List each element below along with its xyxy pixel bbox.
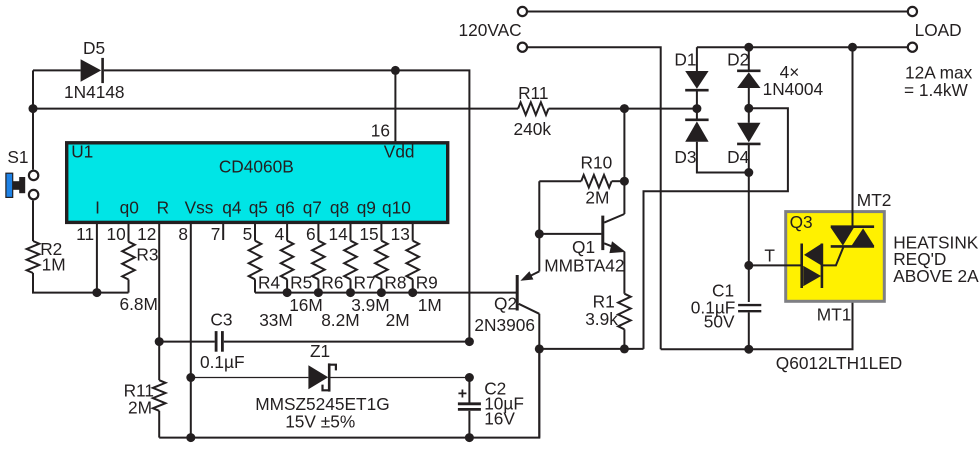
wire 120VAC hot down to lower rail [527, 47, 661, 349]
junction R8 bus [377, 288, 386, 297]
svg-text:2M: 2M [386, 310, 410, 330]
svg-text:R3: R3 [136, 244, 158, 264]
wire pin 10 + resistor R3 [128, 222, 130, 242]
junction MT2 load line [848, 43, 857, 52]
resistor R10 [539, 180, 581, 182]
svg-text:240k: 240k [514, 119, 552, 139]
wire q-bus to Q2 base [255, 292, 517, 294]
svg-text:S1: S1 [7, 147, 28, 167]
junction Q1 base tap [535, 229, 544, 238]
wire D3 anode to D4 node [697, 142, 749, 173]
terminal 120VAC bottom [518, 43, 527, 52]
wire Q1 base [539, 233, 601, 235]
svg-text:MMBTA42: MMBTA42 [544, 255, 624, 275]
junction R10 Q1 collector [620, 177, 629, 186]
svg-text:2N3906: 2N3906 [474, 315, 535, 335]
svg-text:R8: R8 [384, 273, 406, 293]
svg-text:q10: q10 [382, 197, 411, 217]
wire Q2 emitter column [538, 181, 540, 271]
svg-text:Q6012LTH1LED: Q6012LTH1LED [776, 353, 902, 373]
svg-text:C3: C3 [210, 309, 232, 329]
junction C1 rail [744, 345, 753, 354]
svg-text:Q1: Q1 [572, 237, 595, 257]
svg-text:12: 12 [137, 224, 156, 244]
resistor R8 [375, 222, 406, 293]
junction S1 node [29, 104, 38, 113]
svg-text:1M: 1M [418, 295, 442, 315]
svg-text:15: 15 [359, 224, 378, 244]
resistor R6 [312, 222, 343, 293]
svg-text:R: R [157, 197, 169, 217]
svg-text:33M: 33M [259, 310, 293, 330]
zener Z1 [308, 365, 328, 389]
junction Vss Z1 [186, 373, 195, 382]
svg-text:+: + [458, 385, 467, 402]
svg-text:LOAD: LOAD [915, 20, 962, 40]
resistor R11 2M [158, 342, 160, 381]
svg-text:16M: 16M [289, 295, 323, 315]
junction R11 bridge D1-D3 [692, 104, 701, 113]
svg-text:10: 10 [106, 224, 125, 244]
resistor R11 240k [518, 102, 548, 115]
svg-text:4: 4 [275, 224, 285, 244]
diode D2 [737, 70, 760, 73]
svg-text:ABOVE 2A: ABOVE 2A [893, 266, 979, 286]
capacitor C3 [159, 341, 215, 343]
svg-text:q7: q7 [303, 197, 322, 217]
wire left column top [32, 70, 34, 169]
svg-text:16V: 16V [484, 408, 515, 428]
junction R1 rail [620, 344, 629, 353]
wire bridge top to LOAD bottom [697, 46, 908, 48]
svg-text:50V: 50V [704, 311, 735, 331]
wire S1 node to R11 240k [33, 108, 518, 110]
svg-text:5: 5 [243, 224, 253, 244]
transistor Q1 MMBTA42 [603, 214, 626, 253]
terminal 120VAC top [518, 7, 527, 16]
junction D2 D4 [744, 104, 753, 113]
switch S1 [6, 173, 13, 197]
svg-text:8.2M: 8.2M [321, 310, 359, 330]
svg-text:14: 14 [328, 224, 348, 244]
svg-text:15V ±5%: 15V ±5% [285, 411, 355, 431]
wire Q1 collector up to R11 node [623, 109, 625, 214]
svg-text:= 1.4kW: = 1.4kW [904, 80, 969, 100]
wire pin 8 (Vss) down to bottom rail [190, 222, 192, 438]
wire Q2 collector down [538, 314, 540, 438]
svg-text:q5: q5 [249, 197, 268, 217]
svg-text:D5: D5 [83, 38, 105, 58]
wire pin16 Vdd [394, 70, 396, 142]
capacitor C1 [738, 304, 761, 306]
resistor R5 [281, 222, 312, 293]
svg-text:R7: R7 [354, 273, 376, 293]
diac trigger inside Q3 [802, 243, 822, 288]
junction gate node [744, 261, 753, 270]
svg-text:R4: R4 [258, 273, 280, 293]
wire bottom Vss rail [159, 349, 539, 438]
svg-text:D4: D4 [727, 147, 749, 167]
wire emitter rail [539, 348, 643, 350]
svg-text:R11: R11 [518, 83, 548, 103]
svg-text:I: I [95, 197, 100, 217]
svg-text:R9: R9 [416, 273, 438, 293]
svg-text:q8: q8 [330, 197, 349, 217]
wire R11 to bridge node [549, 108, 697, 110]
svg-text:CD4060B: CD4060B [219, 157, 294, 177]
resistor R2 [27, 241, 40, 273]
resistor R4 [249, 222, 281, 293]
wire D5 cathode to Vdd column [104, 70, 470, 341]
svg-text:D1: D1 [674, 49, 696, 69]
svg-text:q9: q9 [357, 197, 376, 217]
svg-text:1N4004: 1N4004 [763, 79, 824, 99]
junction R11/R10 column [620, 104, 629, 113]
wire pin 12 (R) down to C3 node [158, 222, 160, 342]
wire D5 anode from S1 node [33, 69, 81, 71]
op-amp U1 CD4060B body [67, 143, 448, 223]
junction Vdd pin16 tap [391, 66, 400, 75]
wire Z1 cathode to Vdd column [331, 377, 470, 379]
svg-text:MT1: MT1 [817, 304, 852, 324]
wire DC return loop to D2/D4 node [644, 108, 788, 349]
diode D3 [685, 119, 708, 122]
svg-text:120VAC: 120VAC [459, 20, 522, 40]
svg-text:2M: 2M [585, 187, 609, 207]
terminal LOAD bottom [908, 43, 917, 52]
svg-text:MT2: MT2 [857, 190, 892, 210]
diode D5 [81, 59, 102, 82]
svg-text:U1: U1 [71, 142, 93, 162]
wire gate of Q3 [749, 264, 802, 266]
wire pin 7 stub [222, 222, 224, 241]
svg-text:q6: q6 [276, 197, 295, 217]
svg-text:7: 7 [211, 224, 221, 244]
svg-text:R10: R10 [581, 152, 613, 172]
svg-text:R5: R5 [290, 273, 312, 293]
svg-text:6: 6 [306, 224, 316, 244]
junction Z1 Vdd column [465, 373, 474, 382]
wire MT2 [852, 47, 854, 227]
svg-text:Vss: Vss [185, 197, 214, 217]
wire diac to triac gate [822, 247, 844, 265]
svg-text:D2: D2 [727, 49, 749, 69]
transistor Q2 2N3906 [517, 271, 539, 314]
junction Vss bottom rail [186, 433, 195, 442]
svg-text:3.9k: 3.9k [585, 309, 618, 329]
svg-text:Z1: Z1 [310, 341, 330, 361]
wire D2 column [748, 47, 750, 70]
svg-text:q0: q0 [120, 197, 139, 217]
triac symbol of Q3 [831, 227, 874, 247]
terminal LOAD top [908, 7, 917, 16]
wire Z1 anode from Vss [191, 377, 309, 379]
svg-text:Q2: Q2 [494, 293, 517, 313]
svg-text:D3: D3 [674, 147, 696, 167]
svg-text:q4: q4 [222, 197, 242, 217]
triac Q3 package box [786, 212, 885, 302]
svg-text:16: 16 [371, 121, 390, 141]
resistor R9 [406, 222, 437, 293]
wire D1 column [696, 47, 698, 71]
junction D2 top [744, 43, 753, 52]
capacitor C2 [468, 378, 470, 403]
pin number labels 11 10 12 8 7 5 4 6 14 15 13 [76, 224, 410, 244]
svg-text:1M: 1M [42, 255, 66, 275]
diode D4 [737, 123, 760, 143]
svg-text:0.1µF: 0.1µF [200, 352, 245, 372]
svg-text:Q3: Q3 [790, 212, 813, 232]
junction D3 D4 node [744, 168, 753, 177]
wire R2 bottom to R3 bottom [33, 273, 129, 293]
svg-text:2M: 2M [128, 397, 152, 417]
wire S1 to R2 [32, 200, 34, 241]
junction R7 bus [346, 288, 355, 297]
pin name labels I q0 R Vss q4 q5 q6 q7 q8 q9 q10 [95, 197, 411, 217]
junction R5 bus [283, 288, 292, 297]
svg-text:11: 11 [76, 224, 94, 244]
resistor R7 [344, 222, 375, 293]
junction pin11 [92, 288, 101, 297]
svg-text:1N4148: 1N4148 [64, 82, 125, 102]
diode D1 [685, 71, 708, 89]
svg-text:Vdd: Vdd [384, 142, 415, 162]
svg-text:R6: R6 [321, 273, 343, 293]
junction C3 Vdd column [465, 337, 474, 346]
wire MT1 rail [661, 246, 853, 349]
junction Q2 collector rail [535, 344, 544, 353]
svg-text:6.8M: 6.8M [120, 294, 158, 314]
junction R6 bus [314, 288, 323, 297]
junction R9 bus [408, 288, 417, 297]
resistor R1 [623, 252, 625, 294]
junction R pin12 C3 R11 [155, 337, 164, 346]
svg-text:8: 8 [178, 224, 188, 244]
svg-text:T: T [764, 245, 775, 265]
wire 120VAC neutral to LOAD top [527, 11, 908, 13]
junction C2 bottom rail [465, 433, 474, 442]
wire pin 11 [96, 222, 98, 293]
svg-text:13: 13 [391, 224, 410, 244]
